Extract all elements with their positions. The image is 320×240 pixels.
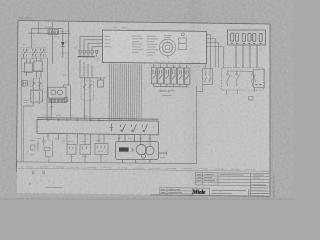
pressure switch P1 loop b	[58, 90, 63, 95]
wires X1 to door lock unit	[235, 45, 237, 68]
bus wire under coils	[22, 70, 44, 72]
main title row separator	[160, 187, 210, 190]
upper right revision table	[196, 172, 270, 175]
auxiliary contact block K8 right of row	[196, 64, 212, 91]
cam contact symbol 4	[144, 124, 148, 132]
cable note text right middle	[160, 91, 172, 95]
bus wire above S1	[37, 118, 159, 120]
wire X5 to earth bus	[71, 154, 73, 162]
label a under X1	[261, 48, 263, 50]
ribbon wire bundle from U1 to program switch	[109, 64, 141, 122]
plug connector X4 pin	[96, 50, 98, 53]
internal link wire	[228, 70, 253, 72]
temperature sensor R30 dashed box	[81, 81, 94, 100]
cam contact symbol 2	[122, 124, 126, 132]
title block text smudges	[161, 174, 268, 195]
film grain overlay	[0, 0, 293, 200]
wire number text smudges above reference line	[26, 167, 256, 170]
hatched cam bar of P1	[49, 99, 67, 102]
earth bus wire bottom	[16, 162, 196, 164]
door lock unit A2 dashed box	[222, 68, 265, 100]
wire X6 to earth bus	[84, 154, 86, 162]
border frame	[16, 21, 270, 197]
wire drop to switch group	[31, 28, 33, 48]
wires from U1 right edge to door-lock unit	[207, 35, 224, 71]
scanner fold shading band	[183, 0, 206, 200]
small level box of P1	[64, 98, 67, 102]
relay coil K1	[36, 58, 38, 62]
coupling dashed link of S2	[22, 51, 47, 53]
contact K5	[171, 68, 177, 84]
terminal number row inside U1 bottom	[156, 61, 200, 64]
slot 1	[230, 33, 233, 41]
tacho generator small circle	[142, 154, 146, 158]
interference capacitor C2	[54, 30, 59, 35]
plug connector X3 pins	[79, 50, 81, 53]
lock switch contact a	[227, 73, 229, 75]
cam contact symbol 1	[111, 124, 113, 132]
wire from frame down right side of left section	[68, 22, 70, 85]
harness wires leaving electronic unit left side	[80, 35, 103, 37]
interference filter module X5	[67, 145, 76, 163]
pin labels above motor	[118, 137, 153, 139]
dashed enclosure of S2 group	[21, 48, 47, 58]
slot 6	[259, 34, 262, 42]
wires of cluster	[44, 151, 46, 157]
bonding connector symbol a below reference line	[29, 170, 45, 184]
plug connector X3 body bar	[78, 56, 96, 58]
pressure switch P1 loop a	[51, 90, 56, 95]
component label smudges left area	[22, 27, 100, 102]
slot 2	[235, 33, 238, 41]
motor field dark bar	[119, 147, 129, 151]
label above selector dial	[164, 36, 172, 38]
pressure switch P1 box	[48, 87, 66, 98]
resistor R1	[44, 148, 50, 151]
relay coil K1a left	[24, 63, 32, 73]
wires below sensors to program switch	[84, 100, 86, 120]
riser x=47 from upper area to program switch	[46, 60, 48, 120]
title block	[160, 173, 270, 197]
switch S2 contact c	[40, 49, 42, 52]
main switch S0 box	[31, 90, 43, 102]
wire bus y=33 upper-left	[28, 32, 71, 35]
label text under contact row	[158, 90, 174, 92]
pin number row under U1	[150, 65, 204, 68]
bus under contact row	[153, 84, 155, 87]
wire from top frame at x=38	[37, 22, 39, 33]
pin ticks on S1 top edge	[47, 119, 49, 121]
motor supply wires top	[118, 135, 120, 142]
drawing stamp text bottom left	[46, 186, 63, 188]
pin marks under slots	[231, 42, 233, 44]
long return wire a to earth bus	[23, 105, 33, 107]
dial radial ticks	[161, 41, 175, 53]
cable reference line with ticks	[16, 167, 270, 172]
wire X7 to earth bus	[100, 155, 102, 163]
wire down from C2	[62, 29, 64, 42]
wire below diode D1	[62, 47, 64, 58]
stub wires below door lock unit	[225, 90, 227, 95]
program list text block A inside U1	[132, 36, 143, 52]
slogan text under logo	[195, 194, 208, 196]
dial index mark	[167, 56, 170, 59]
capacitor C3	[42, 139, 45, 141]
left approval table	[160, 190, 193, 192]
heater relay module X7	[95, 144, 108, 163]
switch S2 contact b	[32, 49, 34, 52]
motor terminal stub right	[159, 152, 167, 154]
drive motor M1 box	[116, 135, 167, 164]
riser wire x=70.6 down to program switch	[69, 85, 71, 120]
pins from U1 to contact row	[153, 64, 155, 67]
mains connector strip X1 top right	[228, 30, 266, 68]
electronic control unit U1	[103, 30, 207, 64]
contact K4	[165, 68, 171, 84]
wire below capacitors	[51, 34, 53, 64]
diode D1	[61, 42, 65, 46]
junction tick	[50, 106, 54, 108]
heater contact sub-box inside A2	[253, 70, 264, 88]
wire bus y=28.4 upper-left	[32, 27, 63, 29]
scanned sheet background	[0, 0, 293, 200]
wire below P1	[50, 98, 52, 120]
lock switch contact b	[236, 73, 238, 75]
bus wire y=77.8	[80, 77, 106, 79]
long return wire b to earth bus	[23, 57, 25, 59]
motor ground wires bottom	[121, 160, 123, 163]
contact K6	[178, 68, 184, 84]
component label smudges bottom area	[30, 116, 101, 157]
slot 3	[242, 33, 245, 41]
contact K2	[151, 68, 157, 84]
interference filter module X6	[80, 145, 91, 163]
sheet edge shadow right of frame	[272, 120, 274, 197]
pin name labels left side inside U1	[105, 36, 112, 46]
cam contact symbol 3	[133, 124, 137, 132]
contact K3	[158, 68, 164, 84]
label M right of motor	[160, 157, 165, 159]
suppressor cluster bottom left	[31, 137, 53, 163]
drawing sheet inside frame	[16, 21, 270, 197]
wire K8 to main riser	[202, 85, 204, 92]
pin labels above U1 top edge	[113, 27, 126, 29]
dial mounting screw	[181, 33, 184, 36]
program switch S1 long box	[37, 118, 159, 135]
relay contact row K2..K7 below U1 right	[151, 64, 190, 87]
slot 4	[248, 33, 251, 41]
wires below S0	[32, 102, 34, 106]
dial side bracket	[179, 38, 187, 50]
wires below program switch left portion	[48, 134, 104, 145]
program list text block B inside U1	[147, 36, 158, 55]
contact pair b1 dashed enclosure	[30, 79, 42, 90]
thermostat box B1	[98, 80, 104, 87]
slot 5	[253, 33, 256, 41]
main riser wire right side	[195, 86, 197, 163]
motor winding circle b	[145, 146, 154, 155]
motor winding circle a	[136, 145, 146, 155]
label right of capacitors	[61, 31, 65, 33]
door switch S2 contact a	[23, 49, 25, 52]
terminal mark bottom right of A2	[249, 97, 254, 101]
program selector dial S10	[159, 33, 186, 59]
contact pair b1	[32, 78, 34, 91]
wire from top frame at x=52	[51, 22, 53, 30]
mains terminal X0	[22, 81, 28, 86]
page edge shading bottom	[0, 197, 293, 201]
contact K7	[184, 68, 190, 84]
wire from P1 top to the right riser	[63, 84, 70, 86]
lock switch contact c	[252, 73, 254, 75]
interference capacitor C1	[48, 30, 53, 35]
motor brush ticks	[132, 148, 134, 150]
harness drop wires to NTC pair	[79, 60, 81, 78]
